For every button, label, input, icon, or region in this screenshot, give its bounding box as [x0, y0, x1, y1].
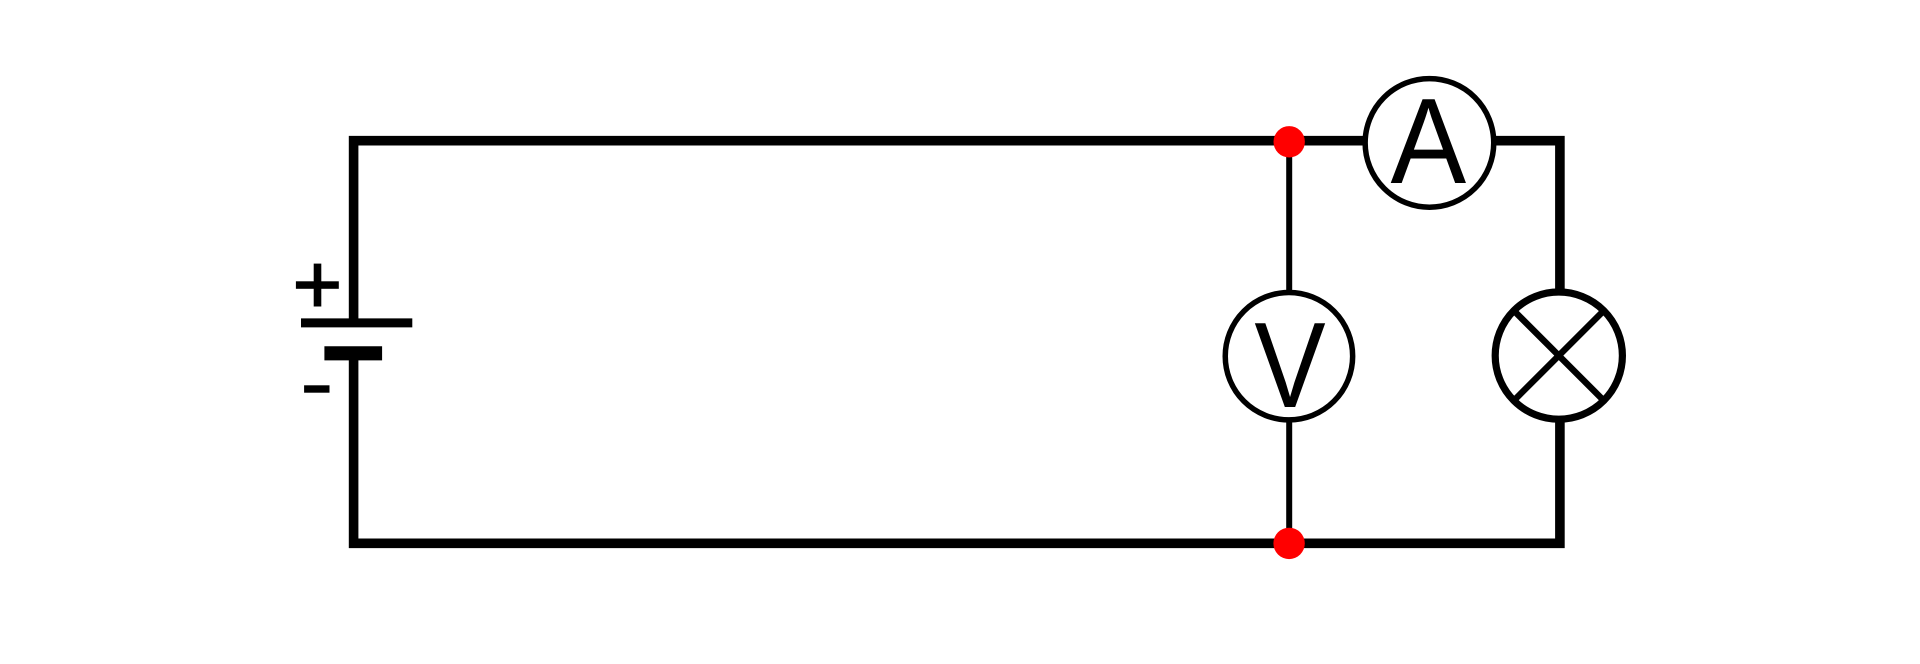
wire (battery + side: up left rail, across top, down right rail to lamp)	[354, 141, 1560, 356]
voltmeter V1 body	[1225, 293, 1352, 420]
battery - label	[304, 385, 329, 392]
node A (top junction dot)	[1274, 126, 1305, 157]
ammeter A1 body	[1365, 79, 1494, 208]
lamp L1 body	[1495, 292, 1622, 419]
lamp L1 cross stroke 2	[1514, 311, 1604, 401]
svg-text:A: A	[1391, 74, 1467, 209]
wire (voltmeter branch, node A to node B)	[1286, 141, 1292, 544]
node B (bottom junction dot)	[1273, 528, 1304, 559]
battery BT1 positive plate	[301, 318, 412, 327]
lamp L1 cross stroke 1	[1514, 311, 1604, 401]
svg-text:V: V	[1254, 297, 1325, 433]
battery BT1 negative plate	[324, 346, 382, 360]
battery + label	[296, 264, 339, 307]
wire (battery - side: down left rail, across bottom, up right rail to lamp)	[354, 353, 1560, 543]
